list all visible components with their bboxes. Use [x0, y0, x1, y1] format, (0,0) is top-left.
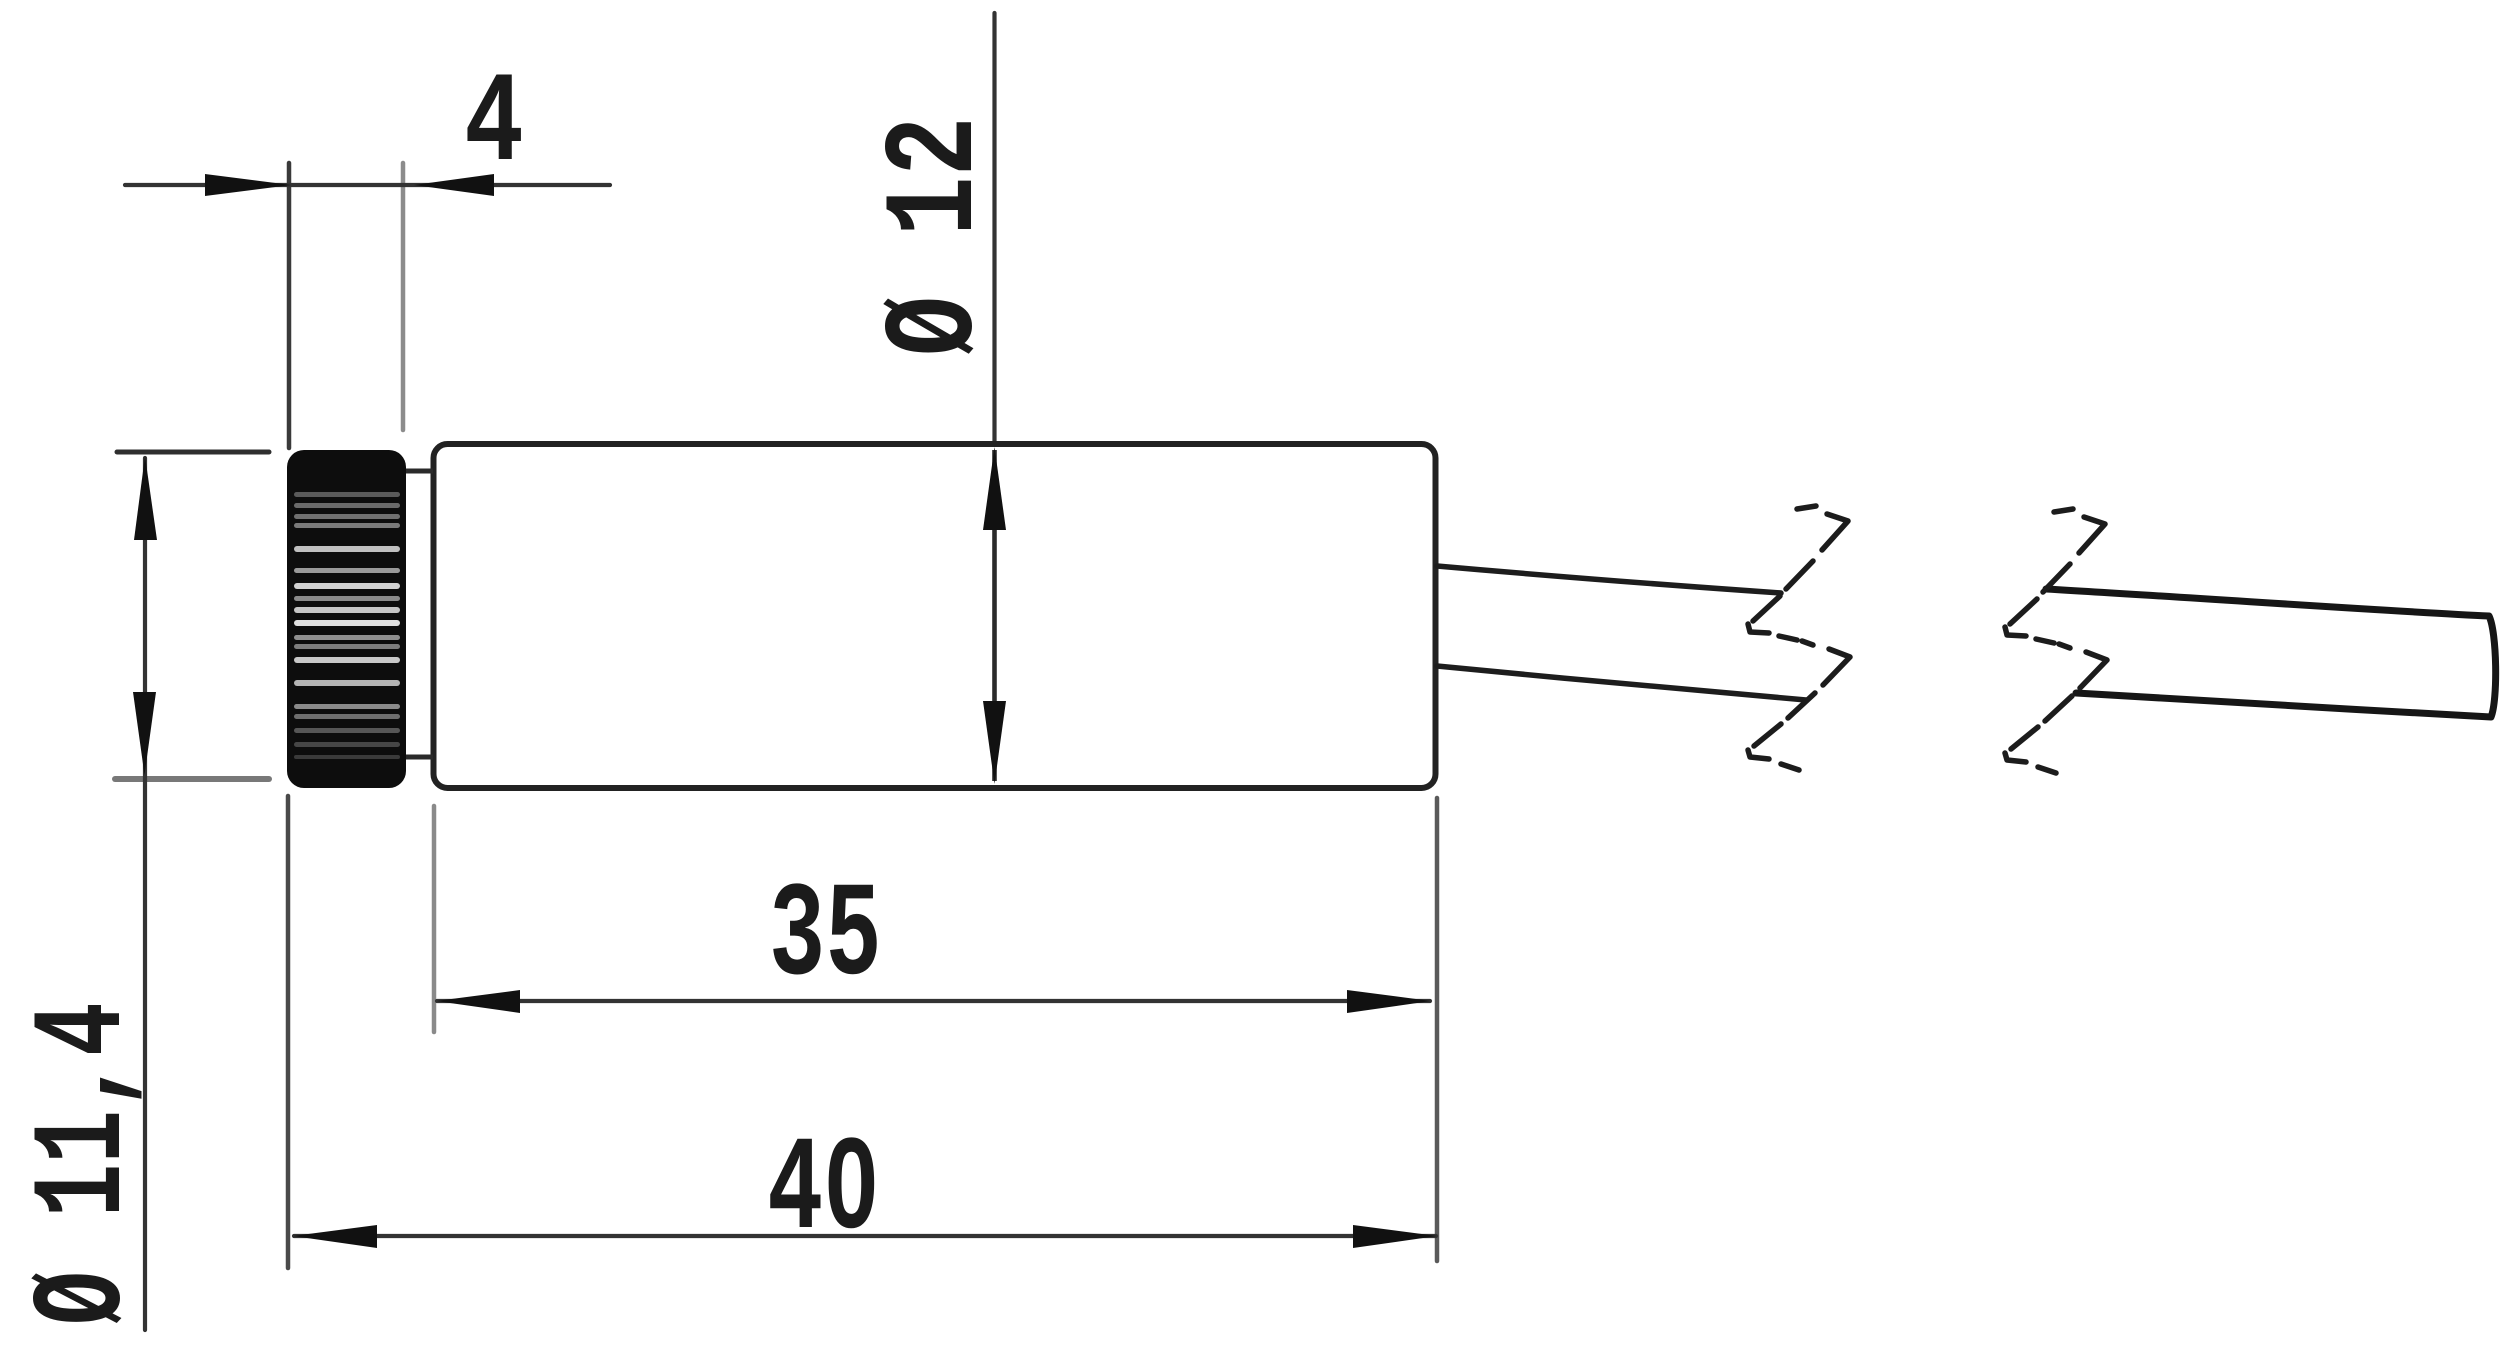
- svg-text:Ø 12: Ø 12: [865, 116, 1010, 356]
- svg-text:35: 35: [769, 862, 882, 1014]
- svg-text:4: 4: [464, 53, 524, 198]
- svg-text:Ø 11,4: Ø 11,4: [14, 1002, 159, 1325]
- svg-text:40: 40: [767, 1116, 880, 1268]
